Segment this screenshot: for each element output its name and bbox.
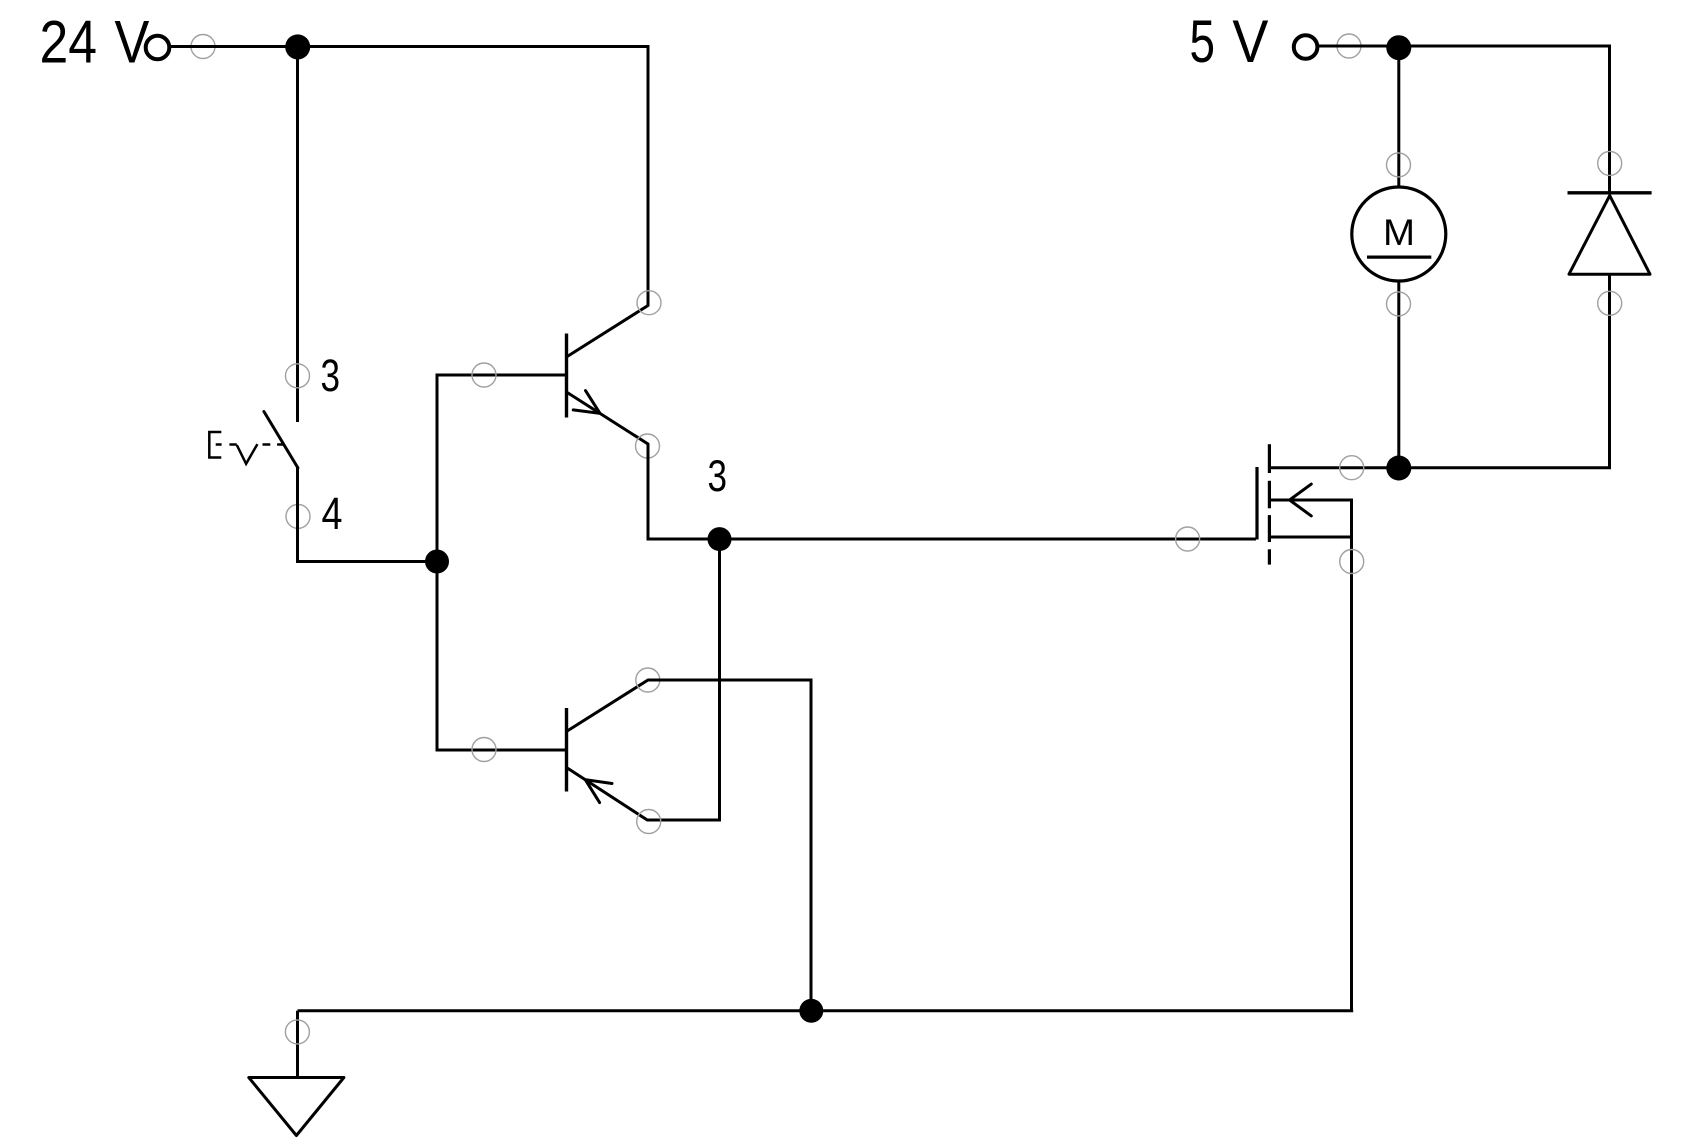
port circle Q3 drain [1340,456,1364,480]
transistor Q2 collector lead [568,680,648,731]
svg-text:24: 24 [40,9,98,76]
transistor Q2 (PNP) base bar [565,708,568,792]
junction node 3 [708,527,732,551]
MOSFET Q3 source lead [1270,537,1352,1011]
wire motor top [1397,46,1400,188]
svg-text:3: 3 [708,452,728,501]
transistor Q2 emitter arrow [585,780,612,803]
svg-text:V: V [1232,8,1268,75]
wire Q2 collector to ground rail [648,680,811,1011]
wire base bus with NPN and PNP base stubs [437,375,565,750]
port circle Q2 base [472,738,496,762]
port circle diode top [1598,151,1622,175]
transistor Q1 (NPN) base bar [565,334,568,418]
wire node 3 down to Q2 emitter [647,539,720,820]
svg-text:4: 4 [322,488,343,539]
wire ground stem [296,1011,299,1078]
wire Q1 emitter to node 3 and MOSFET gate [648,444,1256,539]
wire switch top contact [296,47,299,422]
transistor Q1 collector lead [568,306,648,357]
MOSFET Q3 body arrow [1290,484,1312,516]
MOSFET Q3 channel dashes [1268,444,1271,564]
switch S1 blade [264,412,298,468]
terminal 5V [1294,35,1318,59]
wire motor bottom [1397,281,1400,468]
wire Q3 drain to diode anode corner [1269,274,1609,468]
port circle motor bottom [1387,292,1411,316]
port circle Q3 gate [1176,527,1200,551]
port circle ground [285,1020,309,1044]
junction 24V rail / switch [285,34,310,59]
port circle Q2 emitter [637,810,661,834]
motor M1 body [1352,187,1446,281]
label 5 V [1190,8,1269,75]
transistor Q1 emitter lead [568,393,648,444]
svg-text:V: V [115,9,150,76]
svg-text:3: 3 [321,350,341,401]
port circle pin 3 of switch [286,364,310,388]
svg-text:5: 5 [1190,8,1216,75]
ground rail wire [298,1009,1354,1012]
transistor Q2 emitter lead [568,769,647,820]
terminal 24V [146,36,170,60]
transistor Q1 emitter arrow [573,391,600,414]
junction 5V rail / motor [1386,35,1411,60]
port circle on 24V rail [191,35,215,59]
wire 24V rail and drop to Q1 collector [170,47,649,306]
svg-text:M: M [1383,212,1415,253]
junction ground rail [799,999,823,1023]
port circle Q3 source [1340,550,1364,574]
label 24 V [40,9,150,76]
junction drain / motor / diode node [1386,456,1411,481]
switch actuator E with dashed link and check mark [209,432,284,464]
ground symbol [249,1078,344,1136]
port circle Q1 collector [637,291,661,315]
diode D1 cathode bar [1568,191,1652,194]
port circle pin 4 of switch [286,504,310,528]
port circle on 5V rail [1337,34,1361,58]
diode D1 triangle [1569,196,1650,275]
motor M1 underline [1367,256,1431,259]
MOSFET Q3 body lead with arrow [1270,500,1352,536]
wire 5V rail and drop to diode cathode [1318,46,1610,193]
port circle Q1 emitter [636,434,660,458]
port circle motor top [1387,153,1411,177]
port circle diode bottom [1598,291,1622,315]
port circle Q1 base [472,363,496,387]
MOSFET Q3 gate bar [1255,467,1258,540]
junction base bus [425,550,449,574]
wire switch bottom to base bus [298,467,438,562]
port circle Q2 collector [636,668,660,692]
